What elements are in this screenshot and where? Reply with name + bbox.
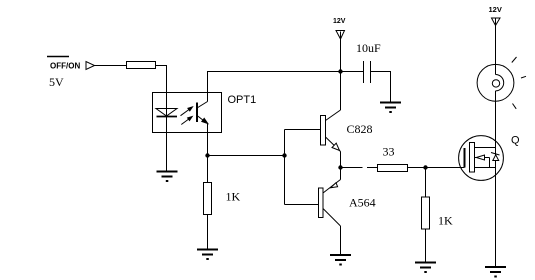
ground under A564 xyxy=(330,255,351,265)
ground under MOSFET source xyxy=(485,267,506,277)
wire resistor to LED anode xyxy=(156,66,167,93)
input port triangle xyxy=(86,62,95,70)
svg-text:1K: 1K xyxy=(438,214,453,228)
OPT1 light arrow 2 xyxy=(181,117,192,125)
net label OFF/ON with overline xyxy=(47,57,80,71)
svg-text:1K: 1K xyxy=(226,190,241,204)
wire emitter node to base rail xyxy=(208,155,285,157)
wire node to capacitor xyxy=(341,71,364,73)
lamp light rays xyxy=(512,57,526,109)
ground under capacitor xyxy=(380,103,401,113)
svg-text:10uF: 10uF xyxy=(356,41,381,55)
svg-text:33: 33 xyxy=(383,145,395,159)
resistor R-in xyxy=(127,62,156,69)
svg-text:A564: A564 xyxy=(349,196,376,210)
wire 1K to ground xyxy=(207,215,209,250)
wire C828 emitter to output node xyxy=(340,152,342,168)
transistor C828 (NPN) xyxy=(285,110,341,152)
svg-text:OPT1: OPT1 xyxy=(228,94,257,106)
power 12V middle xyxy=(333,18,346,39)
svg-text:12V: 12V xyxy=(333,18,346,25)
wire gate node down to 1K right xyxy=(425,168,427,198)
MOSFET Q xyxy=(459,136,504,181)
wire A564 collector to ground xyxy=(340,226,342,255)
svg-text:12V: 12V xyxy=(489,5,502,14)
ground under 1K right xyxy=(415,263,436,273)
wire LED cathode to ground xyxy=(166,133,168,172)
svg-text:5V: 5V xyxy=(49,75,64,89)
ground under LED xyxy=(157,172,178,182)
wire phototransistor emitter down xyxy=(207,123,209,156)
node OPT1 emitter xyxy=(205,153,209,157)
wire C828 collector to 12V node xyxy=(340,72,342,111)
wire resistor 33 to MOSFET gate xyxy=(408,167,465,169)
ground under 1K left xyxy=(197,250,218,260)
transistor A564 (PNP) xyxy=(285,180,341,227)
node gate xyxy=(423,165,427,169)
wire phototransistor collector up and right to 12V node xyxy=(208,72,341,102)
power 12V right xyxy=(489,5,502,26)
svg-text:OFF/ON: OFF/ON xyxy=(50,62,80,71)
resistor 33 xyxy=(378,165,408,172)
wire node down to 1K xyxy=(207,156,209,183)
wire 1K right to ground xyxy=(425,229,427,263)
wire 12V right to lamp xyxy=(495,19,497,65)
node base rail xyxy=(282,153,286,157)
capacitor 10uF xyxy=(364,61,371,83)
node 12V rail xyxy=(338,69,342,73)
OPT1 light arrow 1 xyxy=(181,107,193,116)
OPT1 LED diode xyxy=(156,93,177,133)
lamp xyxy=(477,64,514,101)
svg-text:Q: Q xyxy=(511,135,520,147)
OPT1 phototransistor xyxy=(197,102,208,124)
wire 12V to node xyxy=(340,32,342,72)
wire capacitor to ground xyxy=(371,72,391,103)
resistor 1K right xyxy=(422,197,430,229)
wire output node toward resistor 33 (with gap) xyxy=(341,167,378,169)
wire lamp to MOSFET drain and source to ground xyxy=(495,101,497,267)
resistor 1K left xyxy=(204,183,212,215)
wire input to resistor xyxy=(95,65,127,67)
wire A564 emitter to output node xyxy=(340,168,342,180)
wire base rail vertical xyxy=(284,130,286,205)
svg-text:C828: C828 xyxy=(347,122,373,136)
node emitter output xyxy=(338,165,342,169)
optocoupler OPT1 box xyxy=(153,93,222,133)
